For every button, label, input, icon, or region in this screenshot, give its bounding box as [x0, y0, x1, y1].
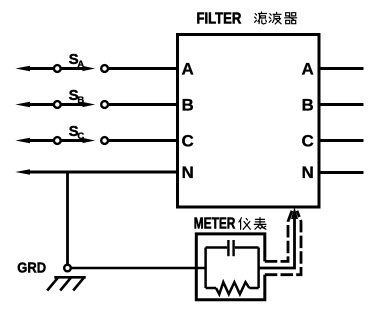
cable shield upper dashed: [265, 211, 292, 262]
top branch to capacitor: [206, 246, 228, 249]
bottom branch stubs: [206, 287, 216, 290]
wire switch C to box: [109, 139, 178, 142]
wire switch A to box: [109, 67, 178, 70]
label "仪表" (drawn glyphs): [239, 218, 266, 230]
滤: [255, 12, 267, 24]
wire B left with arrow: [15, 102, 53, 108]
cable arrowhead into filter: [291, 207, 298, 219]
器: [285, 13, 297, 24]
svg-text:N: N: [182, 163, 194, 182]
cable center conductor meter to filter: [259, 214, 295, 269]
left vertical: [204, 248, 207, 289]
wire N left with arrow: [15, 169, 177, 175]
switch SA: [54, 65, 108, 72]
svg-text:METER: METER: [194, 215, 236, 232]
svg-text:C: C: [77, 131, 84, 142]
svg-text:GRD: GRD: [17, 260, 46, 277]
resistor R zigzag: [216, 282, 249, 294]
svg-text:A: A: [182, 60, 194, 79]
wire N right: [319, 171, 364, 174]
wire C left with arrow: [15, 138, 53, 144]
wire C right: [319, 139, 364, 142]
波: [269, 12, 281, 24]
wire ground to meter: [71, 267, 205, 270]
ground junction node: [64, 265, 71, 272]
wire A left with arrow: [15, 66, 53, 72]
wire switch B to box: [109, 103, 178, 106]
chassis ground symbol: [47, 277, 86, 290]
svg-text:A: A: [77, 59, 84, 70]
svg-text:C: C: [182, 132, 194, 151]
svg-text:N: N: [302, 163, 314, 182]
meter box (with gap on right edge): [196, 234, 264, 300]
filter box U1: [178, 35, 320, 208]
wire B right: [319, 103, 364, 106]
wire A right: [319, 67, 364, 70]
svg-text:FILTER: FILTER: [197, 11, 242, 28]
switch SB: [54, 101, 108, 108]
表: [254, 218, 266, 230]
仪: [239, 218, 250, 230]
svg-text:C: C: [302, 132, 314, 151]
meter RC loop wires, capacitor C and resistor R: [206, 240, 259, 294]
right vertical: [257, 248, 260, 289]
ground drop wire from N: [66, 172, 69, 265]
capacitor C plates: [227, 240, 229, 256]
svg-text:A: A: [302, 60, 314, 79]
svg-text:B: B: [182, 96, 194, 115]
svg-text:B: B: [302, 96, 314, 115]
cable shield lower dashed: [265, 211, 301, 275]
switch SC: [54, 137, 108, 144]
svg-text:B: B: [77, 95, 84, 106]
label "滤波器" (drawn glyphs): [255, 12, 297, 24]
